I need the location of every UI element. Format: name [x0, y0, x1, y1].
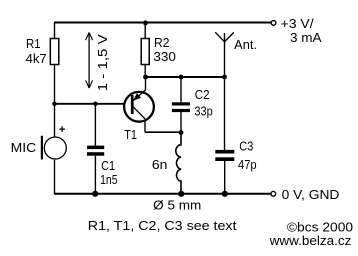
wire antenna / C3 vertical: [224, 33, 226, 150]
wire C2 top vertical: [180, 77, 182, 102]
svg-text:1n5: 1n5: [100, 173, 117, 187]
svg-text:33p: 33p: [194, 104, 212, 118]
node junction C1 bottom: [92, 191, 98, 197]
capacitor C3: [215, 150, 234, 161]
svg-text:4k7: 4k7: [26, 52, 47, 66]
svg-text:C2: C2: [195, 88, 210, 102]
microphone MIC: [41, 126, 67, 159]
resistor R2: [141, 39, 149, 65]
wire emitter vertical: [145, 77, 147, 90]
node junction C2 top: [179, 75, 184, 80]
svg-text:www.belza.cz: www.belza.cz: [269, 234, 352, 248]
resistor R1: [50, 39, 59, 65]
wire collector vertical: [144, 118, 146, 132]
node junction antenna: [222, 75, 227, 80]
svg-text:Ant.: Ant.: [234, 38, 257, 52]
capacitor C2: [172, 102, 190, 112]
wire base horizontal: [54, 103, 131, 105]
svg-text:1 - 1,5 V: 1 - 1,5 V: [96, 34, 110, 92]
capacitor C1: [87, 146, 104, 156]
svg-text:Ø 5 mm: Ø 5 mm: [153, 198, 201, 212]
node junction coil bottom: [178, 191, 184, 197]
svg-text:0 V, GND: 0 V, GND: [282, 188, 340, 202]
svg-text:R1, T1, C2, C3 see text: R1, T1, C2, C3 see text: [88, 219, 237, 233]
svg-text:MIC: MIC: [11, 141, 37, 155]
node junction R2 top: [143, 20, 148, 25]
wire R2 bottom vertical: [144, 65, 146, 78]
svg-text:C1: C1: [101, 159, 115, 173]
svg-text:C3: C3: [239, 140, 253, 154]
voltage arrow 1-1,5V: [86, 33, 93, 89]
node junction C3 bottom: [222, 191, 228, 197]
antenna Ant.: [215, 32, 234, 42]
svg-text:330: 330: [153, 50, 176, 64]
wire MIC bottom vertical: [54, 160, 56, 194]
wire top rail +3V: [54, 22, 271, 24]
inductor L 6n: [176, 133, 181, 194]
wire bottom rail 0V: [54, 193, 271, 195]
wire C1 top vertical: [94, 104, 96, 146]
svg-text:T1: T1: [124, 128, 137, 142]
wire collector horizontal: [145, 131, 181, 133]
node junction C1 top: [93, 102, 98, 107]
wire C3 bottom vertical: [224, 161, 226, 194]
wire emitter node horizontal: [146, 76, 225, 78]
svg-text:R2: R2: [154, 36, 170, 50]
wire C2 bottom vertical: [180, 112, 182, 133]
svg-text:3 mA: 3 mA: [290, 31, 322, 45]
wire C1 bottom vertical: [94, 156, 96, 194]
wire R1 top vertical: [54, 23, 56, 39]
wire MIC top vertical: [54, 104, 56, 137]
svg-text:R1: R1: [26, 37, 41, 51]
terminal 0V: [271, 191, 276, 196]
node junction C2 bottom / coil: [179, 130, 184, 135]
transistor T1: [124, 90, 154, 122]
svg-text:+3 V/: +3 V/: [281, 17, 314, 31]
svg-text:47p: 47p: [238, 158, 257, 172]
terminal +3V: [271, 21, 276, 26]
node junction emitter: [143, 75, 148, 80]
svg-text:6n: 6n: [152, 158, 168, 172]
wire R2 top vertical: [144, 23, 146, 39]
svg-text:©bcs 2000: ©bcs 2000: [287, 221, 353, 235]
node junction base/R1: [52, 102, 57, 107]
wire R1 bottom vertical: [54, 65, 56, 104]
